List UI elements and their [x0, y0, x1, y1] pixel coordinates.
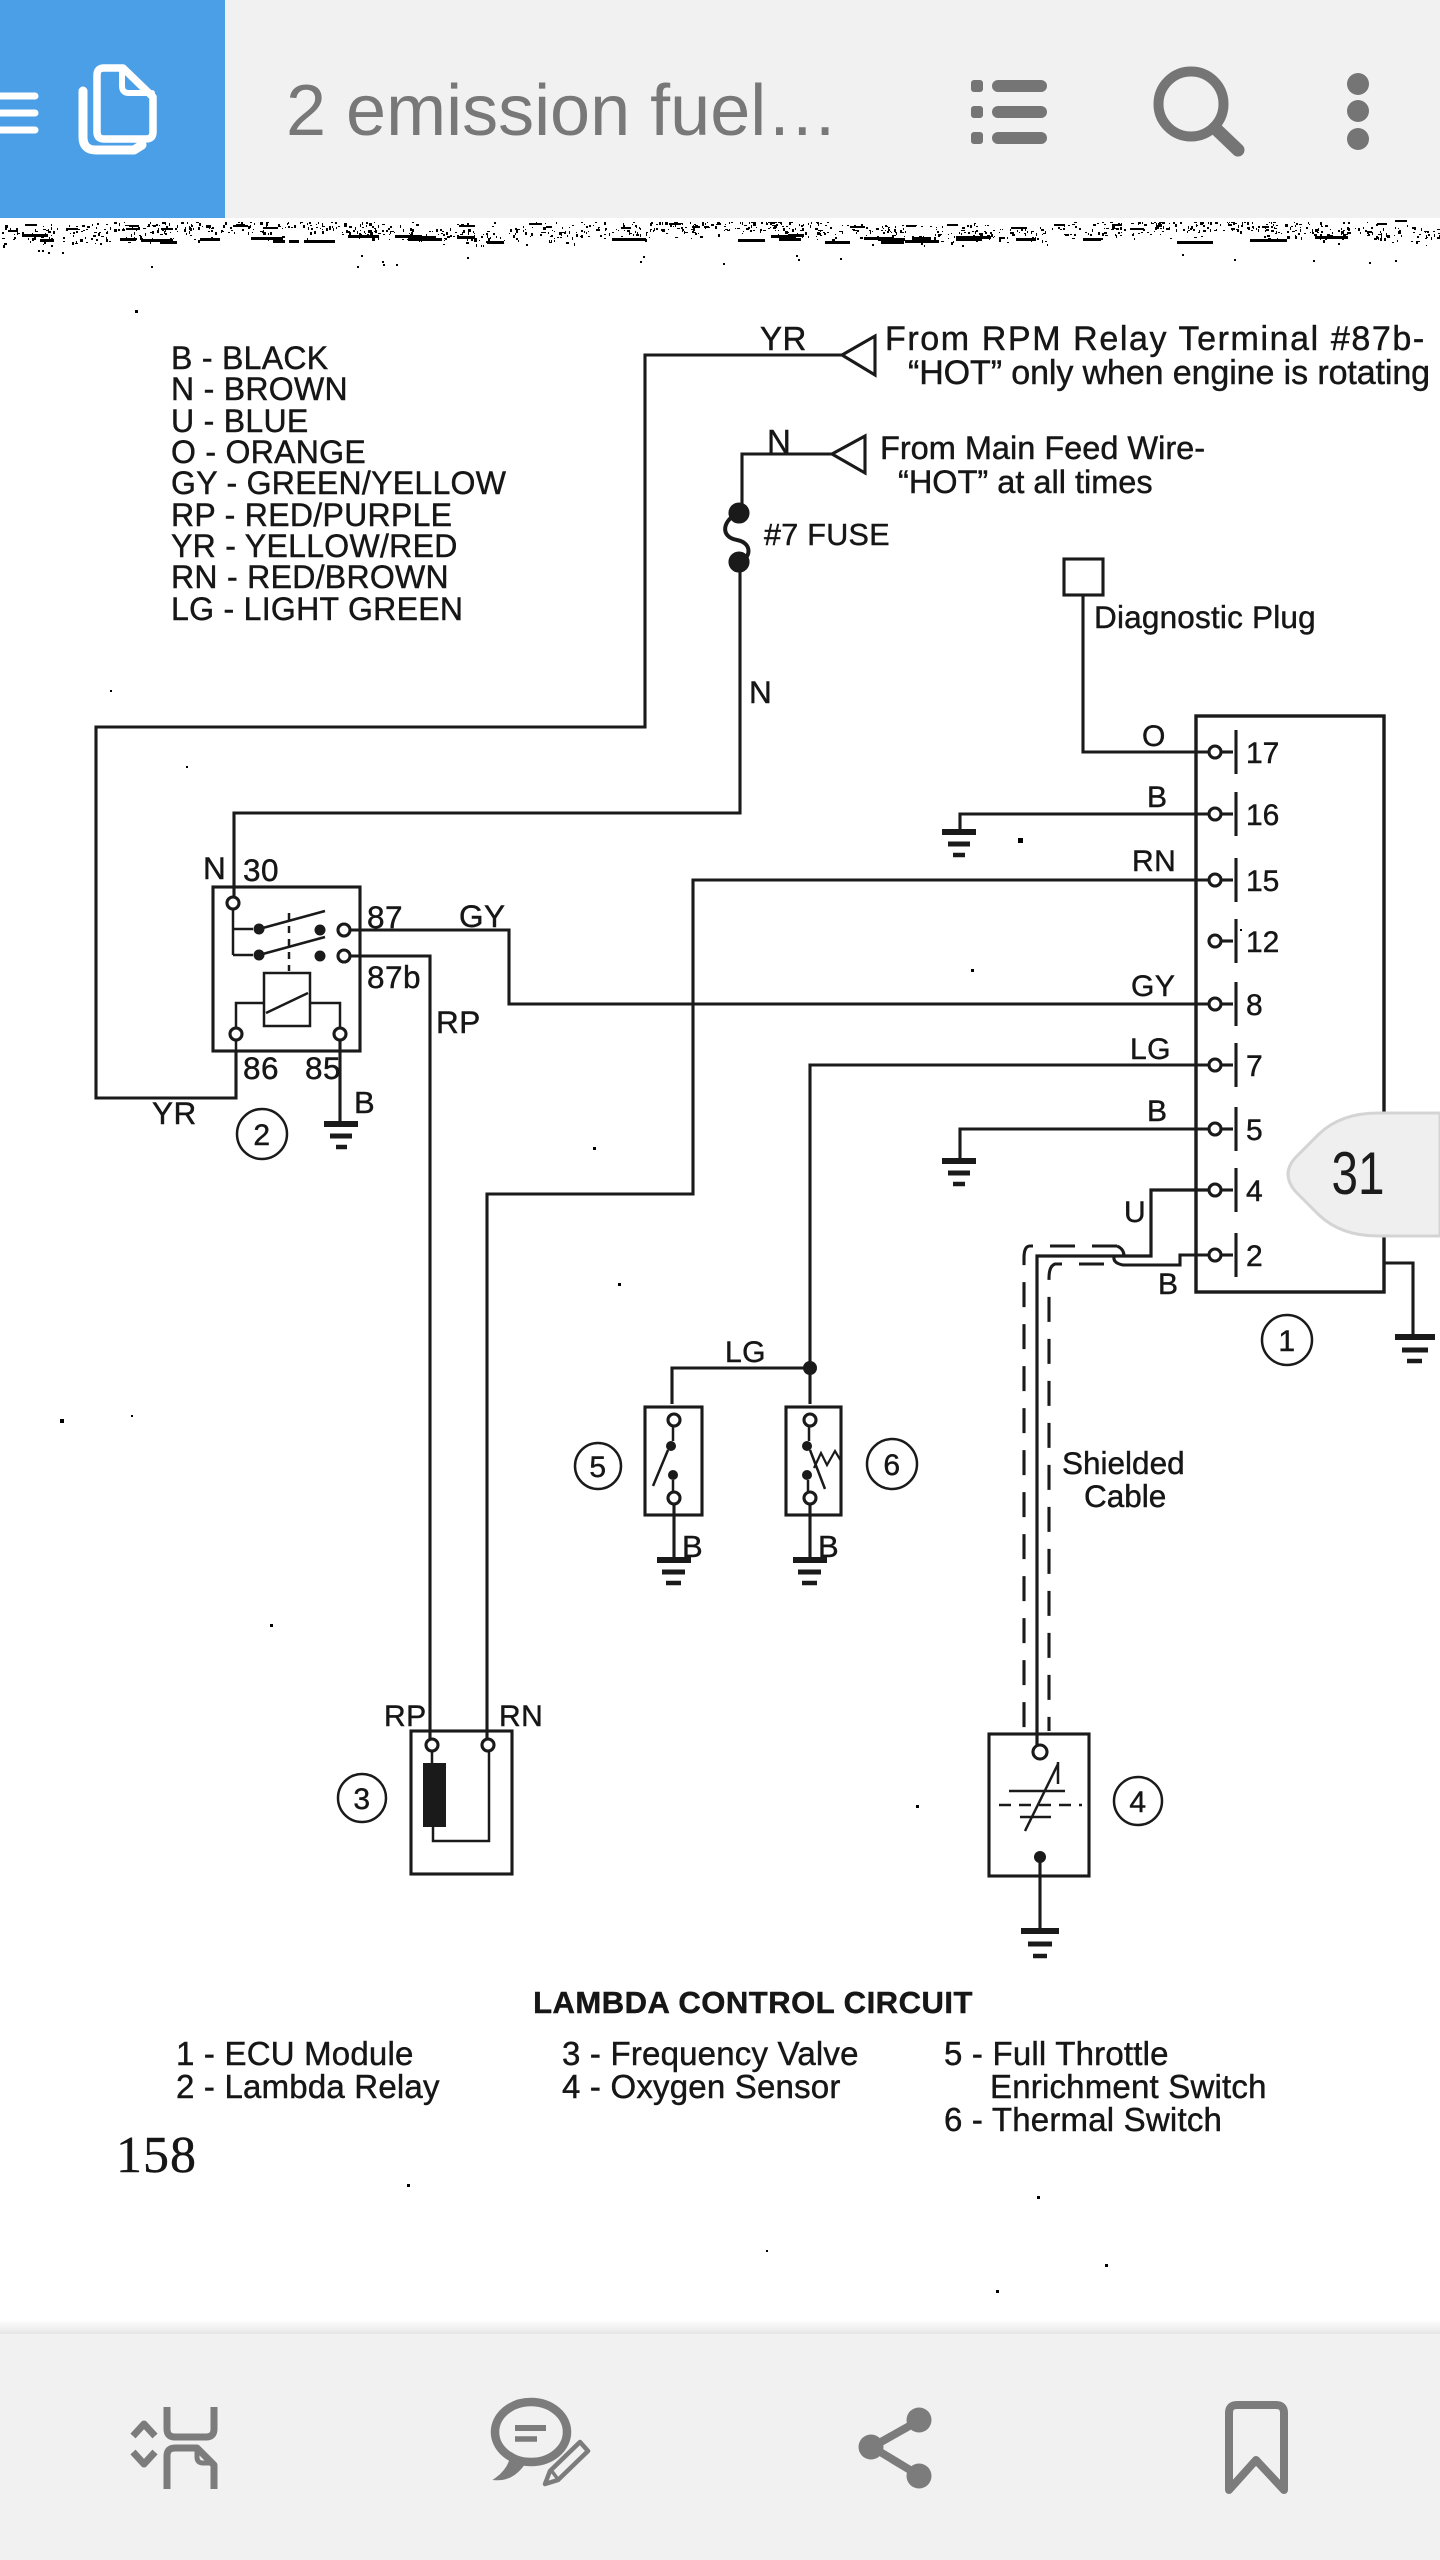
relay internal common bus: [233, 909, 253, 955]
ECU pin 16: [1209, 792, 1236, 836]
frequency valve box: [411, 1731, 512, 1874]
wire LG branch to full throttle switch: [672, 1368, 810, 1404]
overflow menu icon: [1347, 73, 1369, 150]
ground at pin 5: [942, 1161, 976, 1184]
relay actuator dashed link: [288, 913, 291, 971]
bottom tool bar: [0, 2334, 1440, 2560]
ECU pin 2: [1209, 1233, 1236, 1277]
sensor element symbol: [999, 1762, 1082, 1831]
relay contact row 2: [254, 937, 326, 962]
bookmark icon: [1229, 2405, 1284, 2490]
ground at relay: [324, 1124, 358, 1147]
share icon: [859, 2408, 932, 2489]
relay contact terminal 87b: [338, 950, 350, 962]
relay coil leads: [236, 1003, 340, 1051]
annotate icon: [495, 2402, 588, 2484]
connector arrow RPM relay: [842, 336, 875, 375]
scroll-mode icon: [133, 2407, 214, 2489]
fuse F7: [725, 504, 748, 571]
relay contact terminal 87: [338, 924, 350, 936]
search icon: [1159, 72, 1239, 151]
wire B switch 6 to ground: [808, 1504, 811, 1557]
full throttle enrichment switch box: [645, 1407, 702, 1515]
wire U from ECU pin 4 into shielded cable: [1037, 1190, 1209, 1745]
wire LG from ECU pin 7 to switches: [810, 1065, 1209, 1404]
wire B switch 5 to ground: [672, 1504, 675, 1557]
wire N feed from main feed: [742, 454, 833, 505]
switch 5 terminals and arm: [653, 1414, 680, 1504]
shield dashed outer: [1024, 1246, 1117, 1731]
ECU pin 12: [1209, 919, 1236, 963]
switch 6 terminals and arm: [802, 1414, 841, 1504]
diagnostic plug: [1064, 559, 1103, 595]
label circle 4 oxygen sensor: [1114, 1777, 1162, 1825]
relay contact row 1: [254, 911, 326, 936]
ECU pin 17: [1209, 730, 1236, 774]
valve coil winding: [423, 1751, 489, 1841]
shield hook outer: [1117, 1246, 1124, 1256]
wire B from ECU pin 5 to ground: [960, 1129, 1209, 1158]
wire GY from 87 to ECU pin 8: [350, 930, 1209, 1004]
ECU pin 7: [1209, 1043, 1236, 1087]
wire YR feed from RPM relay: [96, 355, 843, 1098]
wire B from ECU pin 2 to cable shield: [1114, 1255, 1209, 1265]
valve pin RN: [482, 1739, 494, 1751]
oxygen sensor box: [989, 1734, 1089, 1876]
ECU pin 8: [1209, 982, 1236, 1026]
toc list icon: [971, 80, 1047, 144]
label circle 5 full throttle switch: [575, 1443, 621, 1489]
label circle 6 thermal switch: [867, 1439, 917, 1489]
relay coil: [264, 973, 310, 1026]
label circle 2 relay: [237, 1109, 287, 1159]
sensor top terminal: [1033, 1745, 1047, 1759]
relay pin 85: [334, 1028, 346, 1040]
ground at oxygen sensor: [1021, 1931, 1059, 1956]
wire B from ECU case to ground: [1384, 1263, 1413, 1334]
wire B from ECU pin 16 to ground: [960, 814, 1209, 829]
label circle 1 ECU: [1262, 1315, 1312, 1365]
wire B from pin 85 to ground: [338, 1040, 341, 1122]
wire RP from 87b down to frequency valve: [350, 956, 430, 1739]
top app bar: [0, 0, 1440, 218]
relay pin 30: [227, 897, 239, 909]
valve pin RP: [426, 1739, 438, 1751]
ground at ECU case: [1395, 1337, 1435, 1361]
ECU module box: [1196, 716, 1384, 1292]
ground at switch 6: [793, 1560, 827, 1583]
relay pin 86: [230, 1028, 242, 1040]
ground at pin 16: [942, 832, 976, 855]
shield dashed inner: [1049, 1264, 1104, 1731]
document pages icon: [83, 68, 153, 150]
wire RN from ECU pin 15 to frequency valve: [487, 880, 1209, 1739]
ECU pin 5: [1209, 1107, 1236, 1151]
wire sensor to ground: [1038, 1862, 1041, 1928]
ECU pin 15: [1209, 858, 1236, 902]
page 31 indicator bubble: [1288, 1113, 1440, 1236]
node LG junction: [803, 1361, 817, 1375]
wire O from diagnostic plug to ECU pin 17: [1083, 595, 1209, 752]
ECU pin 4: [1209, 1168, 1236, 1212]
thermal switch box: [786, 1407, 841, 1515]
connector arrow main feed: [832, 436, 865, 473]
ground at switch 5: [657, 1560, 691, 1583]
relay K2 box: [213, 887, 360, 1051]
sensor bottom terminal: [1034, 1851, 1046, 1863]
hamburger menu icon (clipped at left edge): [0, 96, 35, 130]
label circle 3 frequency valve: [338, 1774, 386, 1822]
wire N from fuse to relay pin 30: [234, 566, 740, 897]
